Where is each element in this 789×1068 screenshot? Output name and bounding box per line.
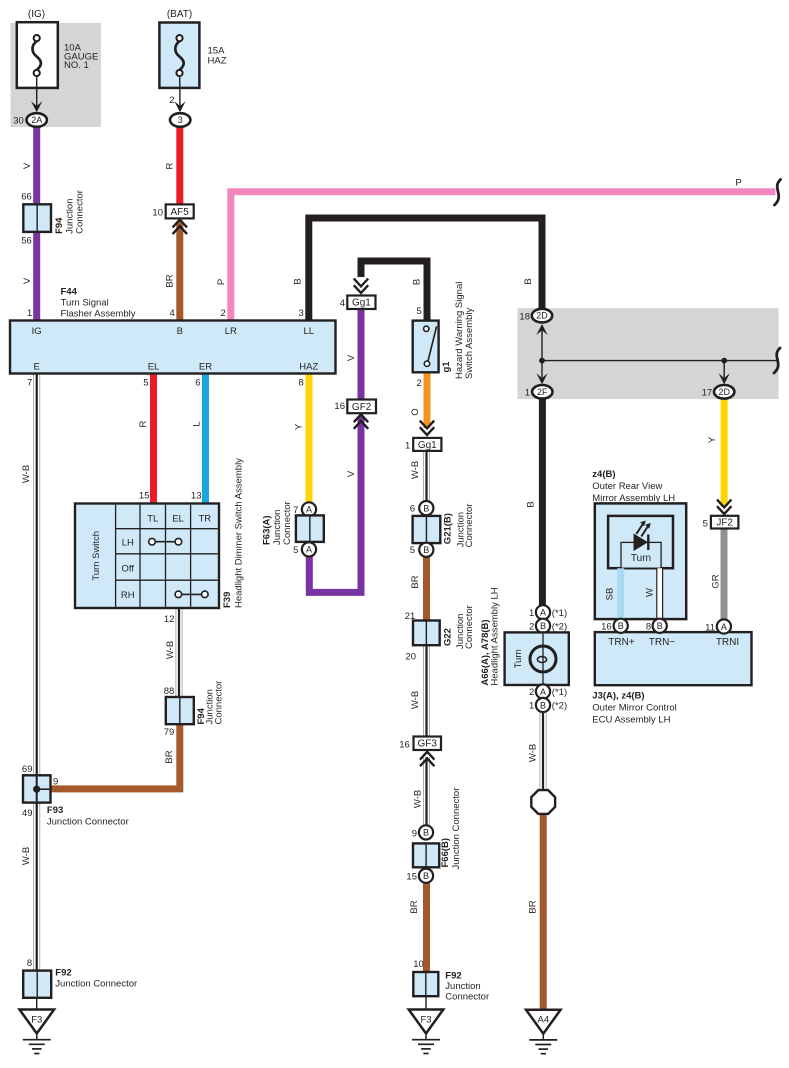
svg-text:TR: TR xyxy=(198,514,211,525)
svg-text:(*1): (*1) xyxy=(552,608,567,619)
svg-text:F66(B): F66(B) xyxy=(440,838,451,868)
connector JF2 pin 5 xyxy=(703,516,739,530)
svg-text:F3: F3 xyxy=(31,1014,42,1025)
svg-text:g1: g1 xyxy=(441,361,452,373)
ground F3 (middle) xyxy=(409,1010,444,1054)
svg-text:4: 4 xyxy=(170,308,175,319)
wire W-B from F44 pin 7 (E) through F93 and F92 xyxy=(33,372,40,997)
svg-text:9: 9 xyxy=(53,776,58,787)
svg-text:1: 1 xyxy=(529,608,534,619)
svg-text:B: B xyxy=(423,871,429,881)
chevron arrow into Gg1 pin 1 xyxy=(420,421,434,435)
svg-text:LH: LH xyxy=(122,537,134,548)
svg-text:B: B xyxy=(423,545,429,555)
svg-text:15: 15 xyxy=(406,871,417,882)
junction connector F93 pins 69/49/9 xyxy=(22,764,129,828)
svg-text:6: 6 xyxy=(195,378,200,389)
chevron arrow into Gg1 pin 4 xyxy=(354,279,368,293)
svg-text:Connector: Connector xyxy=(464,605,475,649)
svg-text:Turn: Turn xyxy=(631,553,651,564)
junction connector G21(B) pins 6/5 xyxy=(410,501,475,557)
svg-text:2: 2 xyxy=(529,687,534,698)
svg-text:BR: BR xyxy=(528,900,539,913)
svg-text:A: A xyxy=(306,505,312,515)
wire W-B from headlight A66 pin 1(B) to splice octagon xyxy=(540,712,547,792)
svg-text:GF2: GF2 xyxy=(352,402,372,413)
bus line across grey band xyxy=(542,358,777,364)
svg-text:V: V xyxy=(346,354,357,361)
label BR (AF5 feed) xyxy=(165,274,176,287)
svg-text:Outer Rear View: Outer Rear View xyxy=(592,481,662,492)
chevron arrow into GF2 xyxy=(354,414,368,428)
svg-text:P: P xyxy=(216,279,227,285)
svg-text:16: 16 xyxy=(399,739,410,750)
svg-text:B: B xyxy=(423,503,429,513)
svg-text:W: W xyxy=(645,588,656,597)
svg-text:21: 21 xyxy=(405,611,416,622)
wire Y from F44 pin 8 (HAZ) to junction F63 pin 7 xyxy=(306,372,313,504)
svg-text:F94: F94 xyxy=(54,217,65,234)
connector oval 2F pin 1 xyxy=(525,385,553,399)
svg-text:5: 5 xyxy=(703,518,708,529)
svg-text:B: B xyxy=(540,700,546,710)
svg-text:Connector: Connector xyxy=(464,504,475,548)
svg-text:B: B xyxy=(657,621,663,631)
svg-text:30: 30 xyxy=(13,116,24,127)
svg-text:2F: 2F xyxy=(537,387,548,397)
svg-text:10: 10 xyxy=(413,959,424,970)
chevron arrow into AF5 xyxy=(173,220,187,234)
label R (EL drop) xyxy=(138,420,149,427)
label W-B (headlight-splice) xyxy=(528,744,539,762)
svg-text:J3(A), z4(B): J3(A), z4(B) xyxy=(592,691,644,702)
svg-text:Junction Connector: Junction Connector xyxy=(451,788,462,870)
svg-text:Headlight Dimmer Switch Assemb: Headlight Dimmer Switch Assembly xyxy=(233,458,244,608)
label GR (JF2-TRNI) xyxy=(710,574,721,588)
wire W-B from GF3 to junction F66 pin 9 xyxy=(423,757,430,826)
svg-text:2: 2 xyxy=(529,621,534,632)
label W-B (E drop) xyxy=(21,465,32,483)
svg-text:G22: G22 xyxy=(442,628,453,646)
svg-text:NO. 1: NO. 1 xyxy=(64,60,89,71)
svg-text:1: 1 xyxy=(525,387,530,398)
junction connector G22 pins 21/20 xyxy=(405,605,475,662)
ground A4 xyxy=(526,1010,561,1054)
label V (Gg1-GF2) xyxy=(346,354,357,361)
wire B from hazard switch g1 pin 5 to connector Gg1 pin 4 xyxy=(361,261,427,322)
svg-text:12: 12 xyxy=(164,614,175,625)
label V upper xyxy=(22,162,33,169)
svg-text:HAZ: HAZ xyxy=(208,56,227,67)
label B on g1 riser xyxy=(412,279,423,285)
svg-text:Switch Assembly: Switch Assembly xyxy=(464,307,475,379)
svg-text:W-B: W-B xyxy=(21,847,32,865)
svg-text:17: 17 xyxy=(702,387,713,398)
label Y (2D-JF2) xyxy=(707,436,718,443)
label P vertical xyxy=(216,279,227,285)
svg-text:Headlight Assembly LH: Headlight Assembly LH xyxy=(490,587,501,685)
svg-text:5: 5 xyxy=(143,378,148,389)
wire B from connector 2F pin 1 to headlight A66 pin 1 xyxy=(539,398,546,607)
break squiggle on wire P xyxy=(775,180,781,206)
svg-text:LR: LR xyxy=(225,326,237,337)
connector oval 3 xyxy=(170,113,190,127)
svg-text:W-B: W-B xyxy=(410,691,421,709)
svg-text:4: 4 xyxy=(340,298,345,309)
label V lower xyxy=(22,277,33,284)
svg-text:W-B: W-B xyxy=(21,465,32,483)
svg-text:Turn Switch: Turn Switch xyxy=(91,531,102,581)
svg-text:Off: Off xyxy=(122,563,135,574)
label Y (HAZ drop) xyxy=(294,423,305,430)
label O (g1 drop) xyxy=(410,408,421,415)
junction connector F66(B) pins 9/15 xyxy=(406,788,462,883)
wire BR from AF5 to F44 pin 4 xyxy=(176,222,183,322)
svg-text:A: A xyxy=(540,687,546,697)
connector GF2 pin 16 xyxy=(334,400,376,414)
svg-text:V: V xyxy=(346,470,357,477)
svg-text:10: 10 xyxy=(152,208,163,219)
svg-text:TRN+: TRN+ xyxy=(608,637,635,648)
svg-text:Gg1: Gg1 xyxy=(418,440,437,451)
svg-text:56: 56 xyxy=(21,236,32,247)
svg-text:69: 69 xyxy=(22,764,33,775)
svg-text:RH: RH xyxy=(121,590,135,601)
svg-text:E: E xyxy=(34,361,40,372)
svg-text:1: 1 xyxy=(27,308,32,319)
svg-text:Junction Connector: Junction Connector xyxy=(55,979,137,990)
label W-B (below F93) xyxy=(21,847,32,865)
svg-text:8: 8 xyxy=(299,378,304,389)
svg-text:16: 16 xyxy=(334,401,345,412)
svg-text:BR: BR xyxy=(164,750,175,763)
svg-text:EL: EL xyxy=(148,361,160,372)
svg-text:8: 8 xyxy=(27,958,32,969)
label P horizontal xyxy=(735,178,741,189)
headlight assembly LH A66(A),A78(B) xyxy=(480,587,569,712)
svg-text:5: 5 xyxy=(293,545,298,556)
wire L from F44 pin 6 (ER) to turn switch pin 13 xyxy=(202,372,209,505)
svg-text:2: 2 xyxy=(169,95,174,106)
svg-text:G21(B): G21(B) xyxy=(443,513,454,544)
svg-text:1: 1 xyxy=(529,701,534,712)
svg-text:ER: ER xyxy=(199,361,212,372)
wire O from hazard switch g1 pin 2 to connector Gg1 pin 1 xyxy=(424,371,431,428)
svg-text:TL: TL xyxy=(147,514,158,525)
ground F3 (left) xyxy=(20,1010,55,1054)
svg-text:V: V xyxy=(22,277,33,284)
svg-text:11: 11 xyxy=(705,622,715,633)
wire B from F44 pin 3 (LL) to connector 2D pin 18 xyxy=(309,218,542,321)
svg-text:Y: Y xyxy=(707,436,718,443)
svg-text:GF3: GF3 xyxy=(418,739,438,750)
outer rear view mirror assembly LH z4(B) xyxy=(592,469,686,619)
wire W-B from Gg1 pin 1 to junction G21 pin 6 xyxy=(423,450,430,502)
svg-text:Connector: Connector xyxy=(282,501,293,545)
grey panel right instrument-panel bus xyxy=(518,308,779,399)
outer mirror control ECU assembly LH J3(A),z4(B) xyxy=(592,619,751,726)
svg-text:Connector: Connector xyxy=(74,190,85,234)
label BR (G21-G22) xyxy=(410,575,421,588)
arrow down into 2D (17) xyxy=(719,361,730,385)
svg-text:SB: SB xyxy=(605,588,616,601)
svg-text:Junction Connector: Junction Connector xyxy=(47,817,129,828)
svg-text:BR: BR xyxy=(410,575,421,588)
svg-text:A4: A4 xyxy=(537,1015,549,1026)
svg-text:2A: 2A xyxy=(31,115,42,125)
wire BR from splice octagon to ground A4 xyxy=(540,813,547,1011)
svg-text:A: A xyxy=(721,622,727,632)
svg-text:(*1): (*1) xyxy=(552,687,567,698)
F44 pin numbers bottom xyxy=(27,378,304,389)
junction connector F94 (pins 66/56) xyxy=(21,190,85,246)
svg-text:Connector: Connector xyxy=(214,681,225,725)
label W-B (F39-F94) xyxy=(165,641,176,659)
wire R from F44 pin 5 (EL) to turn switch pin 15 xyxy=(150,372,157,505)
label B (2F-headlight) xyxy=(526,501,537,507)
svg-text:79: 79 xyxy=(164,727,175,738)
svg-text:IG: IG xyxy=(32,326,42,337)
svg-text:W-B: W-B xyxy=(410,461,421,479)
svg-text:JF2: JF2 xyxy=(716,518,733,529)
connector oval 2A pin 30 xyxy=(13,113,47,127)
svg-text:O: O xyxy=(410,408,421,415)
label W-B (Gg1-G21) xyxy=(410,461,421,479)
fuse 15A HAZ (BAT) xyxy=(159,9,226,88)
svg-text:5: 5 xyxy=(410,545,415,556)
turn signal flasher assembly F44 xyxy=(10,287,336,374)
svg-text:2: 2 xyxy=(221,308,226,319)
hazard warning signal switch assembly g1 xyxy=(413,282,475,389)
chevron arrow into JF2 xyxy=(717,500,731,514)
svg-text:B: B xyxy=(423,828,429,838)
connector oval 2D pin 17 xyxy=(702,385,735,399)
connector AF5 pin 10 xyxy=(152,204,193,218)
svg-text:49: 49 xyxy=(22,808,33,819)
svg-text:BR: BR xyxy=(409,900,420,913)
svg-text:HAZ: HAZ xyxy=(299,361,318,372)
svg-text:F92: F92 xyxy=(445,970,461,981)
grey panel around IG fuse xyxy=(11,23,102,127)
svg-text:AF5: AF5 xyxy=(171,207,190,218)
svg-text:18: 18 xyxy=(519,311,530,322)
svg-text:Gg1: Gg1 xyxy=(352,298,371,309)
wire GR from JF2 to mirror ECU pin 11 (TRNI) xyxy=(721,527,728,620)
svg-text:EL: EL xyxy=(172,514,184,525)
svg-text:A: A xyxy=(306,545,312,555)
svg-text:V: V xyxy=(22,162,33,169)
svg-text:B: B xyxy=(540,621,546,631)
svg-text:F63(A): F63(A) xyxy=(261,515,272,545)
label V (below GF2) xyxy=(346,470,357,477)
svg-text:B: B xyxy=(523,278,534,284)
svg-text:LL: LL xyxy=(304,326,315,337)
label BR (F66-F92) xyxy=(409,900,420,913)
fuse 10A GAUGE NO.1 (IG) xyxy=(17,9,99,88)
wire V from GF2 down around to junction F63 pin 5 xyxy=(309,416,361,592)
svg-text:Turn: Turn xyxy=(513,649,524,668)
wire W-B from G22 pin 20 to junction GF3 xyxy=(423,644,430,738)
svg-text:F39: F39 xyxy=(222,592,233,608)
wire P from F44 pin 2 (LR) to right edge xyxy=(231,192,776,321)
connector Gg1 pin 1 xyxy=(405,438,441,451)
headlight dimmer switch assembly F39 (turn switch) xyxy=(75,458,244,625)
label W-B (GF3-F66) xyxy=(413,790,424,808)
lead to ground F3 (middle) xyxy=(425,996,427,1010)
lead from fuse IG to connector 2A xyxy=(31,76,42,112)
svg-text:2D: 2D xyxy=(718,387,730,397)
svg-text:16: 16 xyxy=(601,622,612,633)
svg-text:(BAT): (BAT) xyxy=(167,9,192,20)
svg-text:B: B xyxy=(412,279,423,285)
svg-text:3: 3 xyxy=(299,308,304,319)
svg-text:6: 6 xyxy=(410,504,415,515)
svg-text:P: P xyxy=(735,178,741,189)
label BR (F94-F93) xyxy=(164,750,175,763)
junction connector F63(A) pins 7/5 xyxy=(261,501,323,556)
connector Gg1 pin 4 xyxy=(340,296,376,310)
svg-text:B: B xyxy=(618,621,624,631)
junction connector F94 pins 88/79 xyxy=(164,681,225,738)
junction connector F92 pin 8 (left) xyxy=(23,958,137,998)
wire BR from G21 pin 5 to junction G22 pin 21 xyxy=(423,556,430,622)
svg-text:GR: GR xyxy=(710,574,721,588)
svg-text:B: B xyxy=(526,501,537,507)
label R (BAT feed) xyxy=(165,162,176,169)
svg-text:F93: F93 xyxy=(47,805,63,816)
svg-text:Flasher Assembly: Flasher Assembly xyxy=(61,309,136,320)
svg-text:TRN−: TRN− xyxy=(649,637,676,648)
svg-text:F3: F3 xyxy=(420,1014,431,1025)
label B on LL riser xyxy=(293,278,304,284)
svg-text:z4(B): z4(B) xyxy=(592,469,615,480)
lead to ground F3 (left) xyxy=(36,998,38,1010)
svg-text:BR: BR xyxy=(165,274,176,287)
svg-text:20: 20 xyxy=(405,652,416,663)
arrow down into 2F xyxy=(536,361,547,385)
svg-text:8: 8 xyxy=(646,622,651,633)
svg-text:3: 3 xyxy=(178,115,183,125)
wire Y from connector 2D pin 17 to junction JF2 xyxy=(721,398,728,506)
label B on 2D riser xyxy=(523,278,534,284)
svg-text:Connector: Connector xyxy=(445,992,489,1003)
lead pin 2 from fuse HAZ to connector 3 xyxy=(169,76,185,112)
label L (ER drop) xyxy=(192,421,203,426)
svg-text:Outer Mirror Control: Outer Mirror Control xyxy=(592,703,676,714)
wire V from Gg1 pin 4 to junction GF2 xyxy=(358,309,365,401)
svg-text:B: B xyxy=(177,326,183,337)
wire V from fuse IG to F44 pin 1 xyxy=(33,125,40,321)
arrow up into 2D and junction node xyxy=(536,324,547,364)
label BR (splice-A4) xyxy=(528,900,539,913)
svg-text:R: R xyxy=(138,420,149,427)
connector GF3 pin 16 xyxy=(399,737,441,751)
break squiggle on bus line xyxy=(774,348,780,373)
svg-text:F92: F92 xyxy=(55,968,71,979)
svg-text:Turn Signal: Turn Signal xyxy=(61,298,109,309)
svg-text:W-B: W-B xyxy=(528,744,539,762)
svg-text:R: R xyxy=(165,162,176,169)
svg-text:2D: 2D xyxy=(536,311,548,321)
junction connector F92 pin 10 xyxy=(413,959,489,1003)
svg-text:Y: Y xyxy=(294,423,305,430)
wire BR from F94 pin 79 to junction F93 pin 9 xyxy=(51,723,180,789)
svg-text:A: A xyxy=(540,608,546,618)
svg-text:9: 9 xyxy=(412,829,417,840)
splice octagon xyxy=(531,790,555,814)
svg-text:(*2): (*2) xyxy=(552,701,567,712)
chevron arrow into GF3 xyxy=(420,752,434,766)
svg-text:(*2): (*2) xyxy=(552,621,567,632)
svg-text:7: 7 xyxy=(293,505,298,516)
svg-text:W-B: W-B xyxy=(165,641,176,659)
svg-text:B: B xyxy=(293,278,304,284)
connector oval 2D pin 18 xyxy=(519,309,552,323)
svg-text:F44: F44 xyxy=(61,287,78,298)
svg-text:W-B: W-B xyxy=(413,790,424,808)
svg-text:15: 15 xyxy=(139,491,150,502)
wire W-B from turn switch pin 12 to junction F94 pin 88 xyxy=(176,607,183,698)
F44 pin numbers top xyxy=(27,308,304,319)
wire BR from F66 pin 15 to junction F92 pin 10 xyxy=(423,882,430,973)
label W-B (G22-GF3) xyxy=(410,691,421,709)
svg-text:ECU Assembly LH: ECU Assembly LH xyxy=(592,715,670,726)
svg-text:5: 5 xyxy=(417,306,422,317)
svg-text:TRNI: TRNI xyxy=(716,637,739,648)
svg-text:1: 1 xyxy=(405,440,410,451)
svg-text:(IG): (IG) xyxy=(28,9,45,20)
svg-text:66: 66 xyxy=(21,192,32,203)
svg-text:2: 2 xyxy=(417,378,422,389)
svg-text:88: 88 xyxy=(164,686,175,697)
svg-text:L: L xyxy=(192,421,203,426)
svg-text:7: 7 xyxy=(27,378,32,389)
svg-text:Junction: Junction xyxy=(445,981,480,992)
wire R from fuse HAZ to connector AF5 xyxy=(176,125,183,206)
svg-text:13: 13 xyxy=(191,491,202,502)
